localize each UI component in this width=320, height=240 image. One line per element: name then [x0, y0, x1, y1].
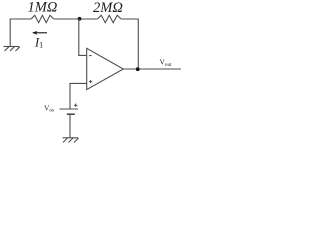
- op-amp U1 triangle: [87, 48, 124, 89]
- op-amp inverting pin minus sign: [89, 55, 92, 57]
- current arrow I1 pointing left: [32, 31, 47, 35]
- battery Vos long plate: [60, 108, 79, 110]
- svg-text:2MΩ: 2MΩ: [93, 0, 123, 16]
- wire node A down to inverting input: [79, 19, 87, 56]
- wire R2 right to feedback corner and down to output node: [121, 19, 138, 69]
- wire non-inverting input to battery: [70, 83, 87, 108]
- battery plus sign: [74, 104, 78, 108]
- battery Vos short plate: [67, 113, 75, 115]
- op-amp non-inverting pin plus sign: [89, 80, 92, 83]
- resistor R1 1M ohm zigzag: [31, 15, 54, 22]
- wire battery to bottom ground: [69, 114, 71, 137]
- wire left vertical from top wire down to ground: [10, 19, 31, 47]
- output node junction dot: [136, 67, 140, 71]
- svg-text:1MΩ: 1MΩ: [28, 0, 58, 16]
- ground (earth) symbol left: [4, 47, 20, 52]
- resistor R2 2M ohm zigzag: [97, 15, 121, 22]
- ground (earth) symbol bottom: [63, 138, 79, 143]
- node A junction dot: [78, 17, 82, 21]
- wire between R1 and node A: [54, 18, 98, 20]
- wire op-amp output to right edge: [123, 68, 181, 70]
